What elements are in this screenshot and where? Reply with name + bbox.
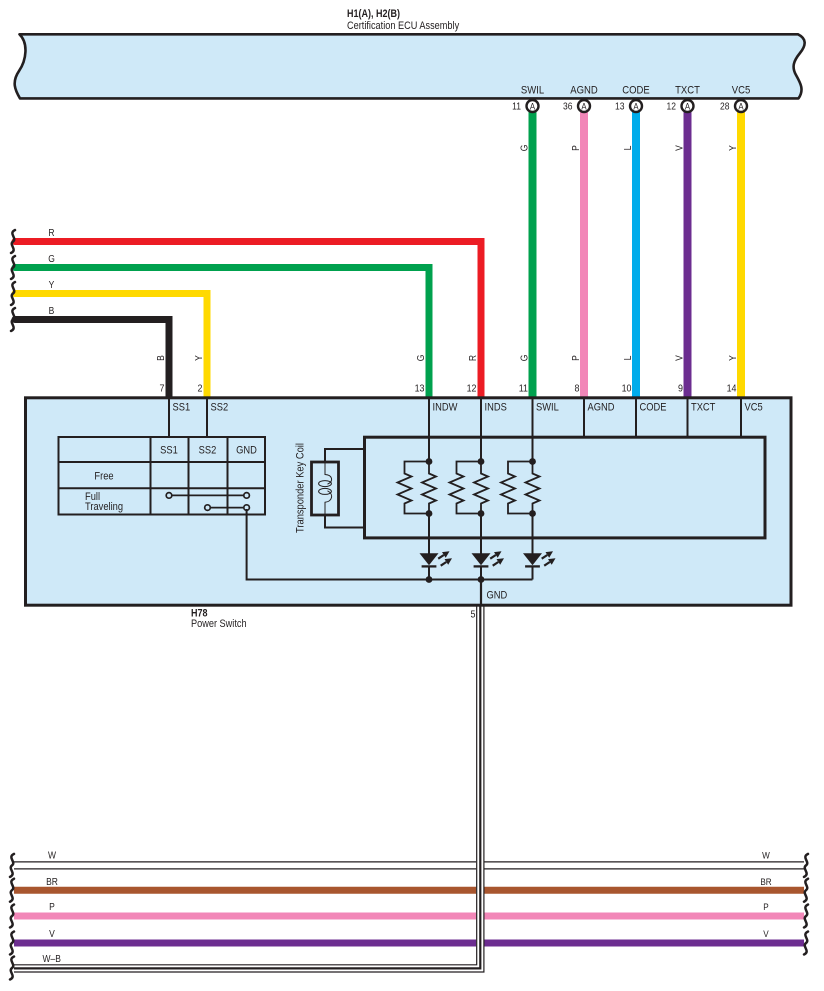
svg-text:10: 10	[622, 383, 632, 395]
svg-text:TXCT: TXCT	[675, 85, 700, 97]
wire VC5 (Y)	[737, 112, 745, 398]
svg-text:W–B: W–B	[43, 953, 61, 964]
svg-text:G: G	[48, 254, 55, 265]
LED D1 emission arrows	[438, 555, 444, 559]
connector H1(A)/H2(B) Certification ECU Assembly	[15, 34, 805, 98]
svg-text:5: 5	[471, 609, 476, 621]
svg-text:AGND: AGND	[570, 85, 597, 97]
svg-text:Traveling: Traveling	[85, 501, 123, 513]
svg-text:CODE: CODE	[622, 85, 650, 97]
wire W-B vertical (white/black)	[476, 607, 484, 971]
svg-text:L: L	[622, 356, 633, 361]
torn end of wire W-B	[10, 957, 14, 980]
svg-text:W: W	[762, 850, 770, 861]
pin terminal SWIL	[532, 398, 534, 462]
svg-text:Power Switch: Power Switch	[191, 619, 247, 631]
svg-text:SS2: SS2	[199, 445, 217, 457]
wire pin to resistor pair 1	[428, 436, 430, 462]
svg-text:G: G	[519, 355, 530, 362]
svg-text:B: B	[49, 306, 55, 317]
svg-text:G: G	[415, 355, 426, 362]
torn ends of wire V	[10, 932, 14, 955]
torn ends of wire W	[10, 854, 14, 877]
svg-text:H1(A), H2(B): H1(A), H2(B)	[347, 8, 400, 20]
resistor R2a (in line)	[474, 462, 488, 514]
svg-text:P: P	[570, 355, 581, 361]
wire resistor pair to LED 1	[428, 514, 430, 555]
switch position table	[59, 437, 266, 515]
wire table GND to LED bus	[247, 509, 533, 580]
svg-text:A: A	[633, 101, 638, 112]
svg-text:TXCT: TXCT	[691, 402, 715, 414]
svg-text:13: 13	[615, 101, 624, 112]
svg-text:Transponder Key Coil: Transponder Key Coil	[295, 443, 307, 533]
torn ends of wire P	[10, 905, 14, 928]
svg-text:9: 9	[678, 383, 683, 395]
node LED bus 1	[426, 576, 433, 583]
torn end of wire G	[11, 256, 15, 279]
resistor R1b (parallel branch)	[398, 462, 430, 514]
resistor R2b (parallel branch)	[450, 462, 482, 514]
node LED bus GND	[478, 576, 485, 583]
svg-text:11: 11	[519, 383, 528, 395]
svg-text:Y: Y	[193, 355, 204, 361]
svg-text:VC5: VC5	[732, 85, 751, 97]
wire G (from left)	[15, 268, 429, 399]
resistor R3a (in line)	[526, 462, 540, 514]
svg-text:V: V	[49, 928, 55, 939]
svg-text:G: G	[519, 145, 530, 152]
svg-text:Certification ECU Assembly: Certification ECU Assembly	[347, 20, 459, 32]
svg-text:13: 13	[415, 383, 425, 395]
svg-text:Y: Y	[727, 355, 738, 361]
pin terminal CODE	[635, 398, 637, 438]
svg-text:P: P	[763, 901, 768, 912]
svg-text:SS1: SS1	[173, 402, 191, 414]
svg-text:SWIL: SWIL	[536, 402, 559, 414]
svg-text:8: 8	[575, 383, 580, 395]
wire GND to pin 5	[480, 580, 482, 606]
node bottom of resistor pair 1	[426, 510, 433, 517]
svg-text:28: 28	[720, 101, 729, 112]
svg-text:12: 12	[467, 383, 477, 395]
LED D3 emission arrows	[542, 555, 548, 559]
svg-text:GND: GND	[236, 445, 257, 457]
wire coil to inner box (top)	[325, 449, 365, 462]
svg-text:V: V	[674, 144, 685, 150]
svg-text:SS1: SS1	[160, 445, 178, 457]
transponder key coil box	[312, 462, 339, 515]
switch contact SS1-GND	[169, 494, 247, 496]
svg-text:W: W	[48, 850, 56, 861]
svg-text:2: 2	[198, 383, 203, 395]
wire TXCT (V)	[684, 112, 692, 398]
svg-text:SWIL: SWIL	[521, 85, 544, 97]
pin terminal TXCT	[687, 398, 689, 438]
svg-text:P: P	[570, 145, 581, 151]
wire pin to resistor pair 3	[532, 436, 534, 462]
svg-text:R: R	[467, 355, 478, 361]
wire coil to inner box (bottom)	[325, 515, 365, 528]
svg-text:V: V	[763, 928, 768, 939]
svg-text:L: L	[622, 146, 633, 151]
svg-text:VC5: VC5	[745, 402, 763, 414]
LED D2 emission arrows	[490, 555, 496, 559]
svg-text:A: A	[530, 101, 535, 112]
pin terminal AGND	[583, 398, 585, 438]
wire AGND (P)	[580, 112, 588, 398]
svg-text:Y: Y	[49, 280, 55, 291]
switch contact SS2-GND	[208, 507, 247, 509]
inner circuit box	[365, 437, 766, 538]
pin terminal VC5	[740, 398, 742, 438]
wire resistor pair to LED 2	[480, 514, 482, 555]
svg-text:12: 12	[667, 101, 676, 112]
pin terminal INDW	[428, 398, 430, 462]
svg-text:A: A	[581, 101, 586, 112]
svg-text:BR: BR	[760, 876, 772, 887]
pin terminal INDS	[480, 398, 482, 462]
svg-text:11: 11	[512, 101, 521, 112]
wire BR (brown)	[14, 887, 804, 894]
svg-text:GND: GND	[487, 590, 508, 602]
coil winding	[325, 461, 332, 484]
node top of resistor pair 3	[529, 458, 536, 465]
pin terminal SS2	[206, 398, 208, 437]
torn end of wire R	[11, 230, 15, 253]
wire V (violet)	[14, 940, 804, 947]
torn end of wire B	[11, 308, 15, 331]
svg-text:INDS: INDS	[485, 402, 507, 414]
wire W (white)	[14, 861, 804, 863]
power switch H78 connector body	[26, 398, 792, 605]
torn end of wire Y	[11, 282, 15, 305]
torn ends of wire BR	[10, 879, 14, 902]
LED D1	[420, 553, 439, 565]
node bottom of resistor pair 3	[529, 510, 536, 517]
svg-text:7: 7	[160, 383, 165, 395]
node bottom of resistor pair 2	[478, 510, 485, 517]
svg-text:AGND: AGND	[588, 402, 615, 414]
wire B (from left)	[15, 320, 169, 399]
wire R (from left)	[15, 242, 481, 399]
svg-text:INDW: INDW	[433, 402, 458, 414]
svg-text:R: R	[48, 228, 54, 239]
wire SWIL (G)	[529, 112, 537, 398]
svg-text:V: V	[674, 354, 685, 360]
wire P (pink)	[14, 913, 804, 920]
svg-text:SS2: SS2	[211, 402, 229, 414]
node top of resistor pair 2	[478, 458, 485, 465]
resistor R1a (in line)	[422, 462, 436, 514]
svg-text:Free: Free	[94, 471, 113, 483]
svg-text:14: 14	[727, 383, 737, 395]
svg-text:BR: BR	[46, 876, 58, 887]
svg-text:A: A	[685, 101, 690, 112]
LED D3	[523, 553, 542, 565]
node top of resistor pair 1	[426, 458, 433, 465]
pin terminal SS1	[168, 398, 170, 437]
svg-text:B: B	[155, 355, 166, 361]
resistor R3b (parallel branch)	[501, 462, 533, 514]
svg-text:P: P	[49, 901, 55, 912]
wire pin to resistor pair 2	[480, 436, 482, 462]
wire Y (from left)	[15, 294, 207, 399]
wire resistor pair to LED 3	[532, 514, 534, 555]
LED D2	[472, 553, 491, 565]
svg-text:36: 36	[563, 101, 572, 112]
wire CODE (L)	[632, 112, 640, 398]
svg-text:CODE: CODE	[640, 402, 667, 414]
svg-text:A: A	[738, 101, 743, 112]
svg-text:Y: Y	[727, 145, 738, 151]
